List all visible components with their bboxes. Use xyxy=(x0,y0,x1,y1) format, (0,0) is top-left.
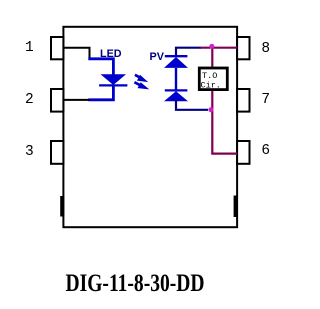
pin 4 stub xyxy=(60,196,64,217)
pin 6 box xyxy=(237,141,249,164)
PV diode D2 triangle xyxy=(164,57,188,68)
svg-text:Cir.: Cir. xyxy=(201,80,221,90)
node junction dot bottom xyxy=(208,107,213,112)
wire LED cathode to pin2 (black) xyxy=(63,99,89,101)
pin 3 box xyxy=(51,141,63,164)
svg-text:8: 8 xyxy=(261,41,270,57)
svg-text:2: 2 xyxy=(25,92,34,108)
PV diode D3 cathode bar xyxy=(165,89,188,91)
wire PV stack across (magenta vertical) xyxy=(211,47,213,110)
pin 5 stub xyxy=(234,196,238,218)
svg-text:1: 1 xyxy=(25,40,34,56)
package outline U1 xyxy=(63,27,237,227)
node junction dot top xyxy=(209,44,214,49)
svg-text:3: 3 xyxy=(25,144,34,160)
wire PV bottom (navy) xyxy=(176,101,208,110)
LED D1 triangle xyxy=(101,74,127,85)
svg-text:7: 7 xyxy=(261,92,270,108)
pin 1 box xyxy=(51,37,63,59)
svg-text:6: 6 xyxy=(261,143,270,159)
wire between PV diodes xyxy=(175,68,177,91)
T.O circuit box U2 xyxy=(199,68,227,90)
PV diode D2 cathode bar xyxy=(165,55,188,57)
pin 8 box xyxy=(237,37,249,59)
wire pin1 to LED anode (black) xyxy=(63,48,89,59)
wire lower dot to pin6 (magenta) xyxy=(212,110,237,154)
svg-text:LED: LED xyxy=(100,48,122,60)
PV diode D3 triangle xyxy=(164,91,188,101)
svg-text:DIG-11-8-30-DD: DIG-11-8-30-DD xyxy=(66,270,205,297)
wire LED anode (blue) xyxy=(88,59,113,75)
wire PV top to pin8 (magenta) xyxy=(200,47,237,49)
wire LED cathode (blue) xyxy=(88,85,113,99)
pin 7 box xyxy=(237,89,249,112)
light arrow 1 xyxy=(135,75,148,82)
LED D1 cathode bar xyxy=(99,84,127,86)
pin 2 box xyxy=(51,89,63,112)
wire PV top (navy) xyxy=(176,48,201,57)
svg-text:PV: PV xyxy=(150,51,165,63)
light arrow 2 xyxy=(134,82,149,89)
